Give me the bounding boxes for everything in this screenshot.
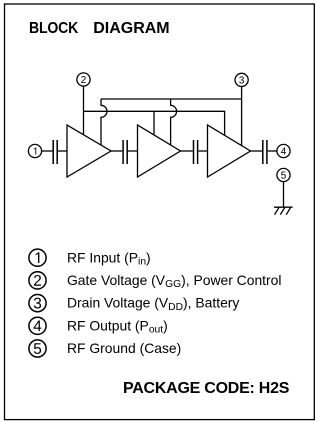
wire drain bus drop to A2 with hop over gate bus xyxy=(171,99,177,145)
legend row 5 text xyxy=(67,340,181,356)
svg-text:Drain Voltage (VDD), Battery: Drain Voltage (VDD), Battery xyxy=(67,295,239,313)
svg-text:RF Output (Pout): RF Output (Pout) xyxy=(67,317,168,335)
legend circle 2 xyxy=(29,272,46,289)
wire node5 to ground xyxy=(283,181,285,207)
svg-text:Gate Voltage (VGG), Power Cont: Gate Voltage (VGG), Power Control xyxy=(67,272,281,290)
package code text xyxy=(123,380,290,397)
legend circle 4 xyxy=(29,317,46,334)
capacitor C4 xyxy=(263,140,267,164)
node 5 (RF ground terminal) xyxy=(277,168,290,181)
node 2 label digit xyxy=(81,76,86,83)
wire A1 output to C2 xyxy=(111,150,122,152)
node 1 label digit xyxy=(34,148,36,155)
legend circle 1 xyxy=(29,249,46,266)
svg-text:DIAGRAM: DIAGRAM xyxy=(93,20,169,37)
wire C4 to node 4 xyxy=(268,150,277,152)
node 2 (gate voltage terminal) xyxy=(77,73,90,86)
node 3 label digit xyxy=(239,76,244,83)
wire node3 down to A3 drain xyxy=(241,86,243,145)
wire A3 output to C4 xyxy=(251,150,263,152)
legend row 1 text xyxy=(67,249,151,267)
wire drain bus drop to A1 with hop over gate bus xyxy=(101,99,107,145)
legend row 4 text xyxy=(67,317,168,335)
wire node2 down to A1 gate xyxy=(83,86,85,135)
op-amp A1 (first amplifier stage) xyxy=(67,125,111,177)
legend row 2 text xyxy=(67,272,281,290)
title BLOCK DIAGRAM xyxy=(29,19,170,37)
op-amp A2 (second amplifier stage) xyxy=(138,125,181,177)
ground (chassis) xyxy=(274,207,293,215)
svg-text:PACKAGE CODE: H2S: PACKAGE CODE: H2S xyxy=(123,380,290,397)
wire gate bus drop to A2 xyxy=(153,111,155,135)
legend circle 5 xyxy=(29,340,46,357)
capacitor C2 xyxy=(123,140,127,164)
wire drain bus (node3) xyxy=(101,98,242,100)
legend row 3 text xyxy=(67,295,239,313)
wire C3 to amp A3 xyxy=(198,150,207,152)
wire A2 output to C3 xyxy=(181,150,193,152)
node 4 (RF output terminal) xyxy=(277,144,290,157)
svg-text:BLOCK: BLOCK xyxy=(29,19,78,37)
node 3 (drain voltage terminal) xyxy=(235,73,248,86)
legend circle 3 xyxy=(29,295,46,312)
svg-text:RF Input (Pin): RF Input (Pin) xyxy=(67,249,151,267)
op-amp A3 (third amplifier stage) xyxy=(208,125,251,177)
wire gate bus (node2) to A3, corner drop xyxy=(84,111,225,135)
wire C2 to amp A2 xyxy=(128,150,138,152)
node 4 label digit xyxy=(281,148,286,155)
svg-text:RF Ground (Case): RF Ground (Case) xyxy=(67,340,181,356)
capacitor C3 xyxy=(194,140,198,164)
wire node1 to C1 xyxy=(41,150,52,152)
wire C1 to amp A1 xyxy=(58,150,67,152)
node 5 label digit xyxy=(281,172,286,179)
capacitor C1 xyxy=(53,140,57,164)
node 1 (RF input terminal) xyxy=(28,144,41,157)
